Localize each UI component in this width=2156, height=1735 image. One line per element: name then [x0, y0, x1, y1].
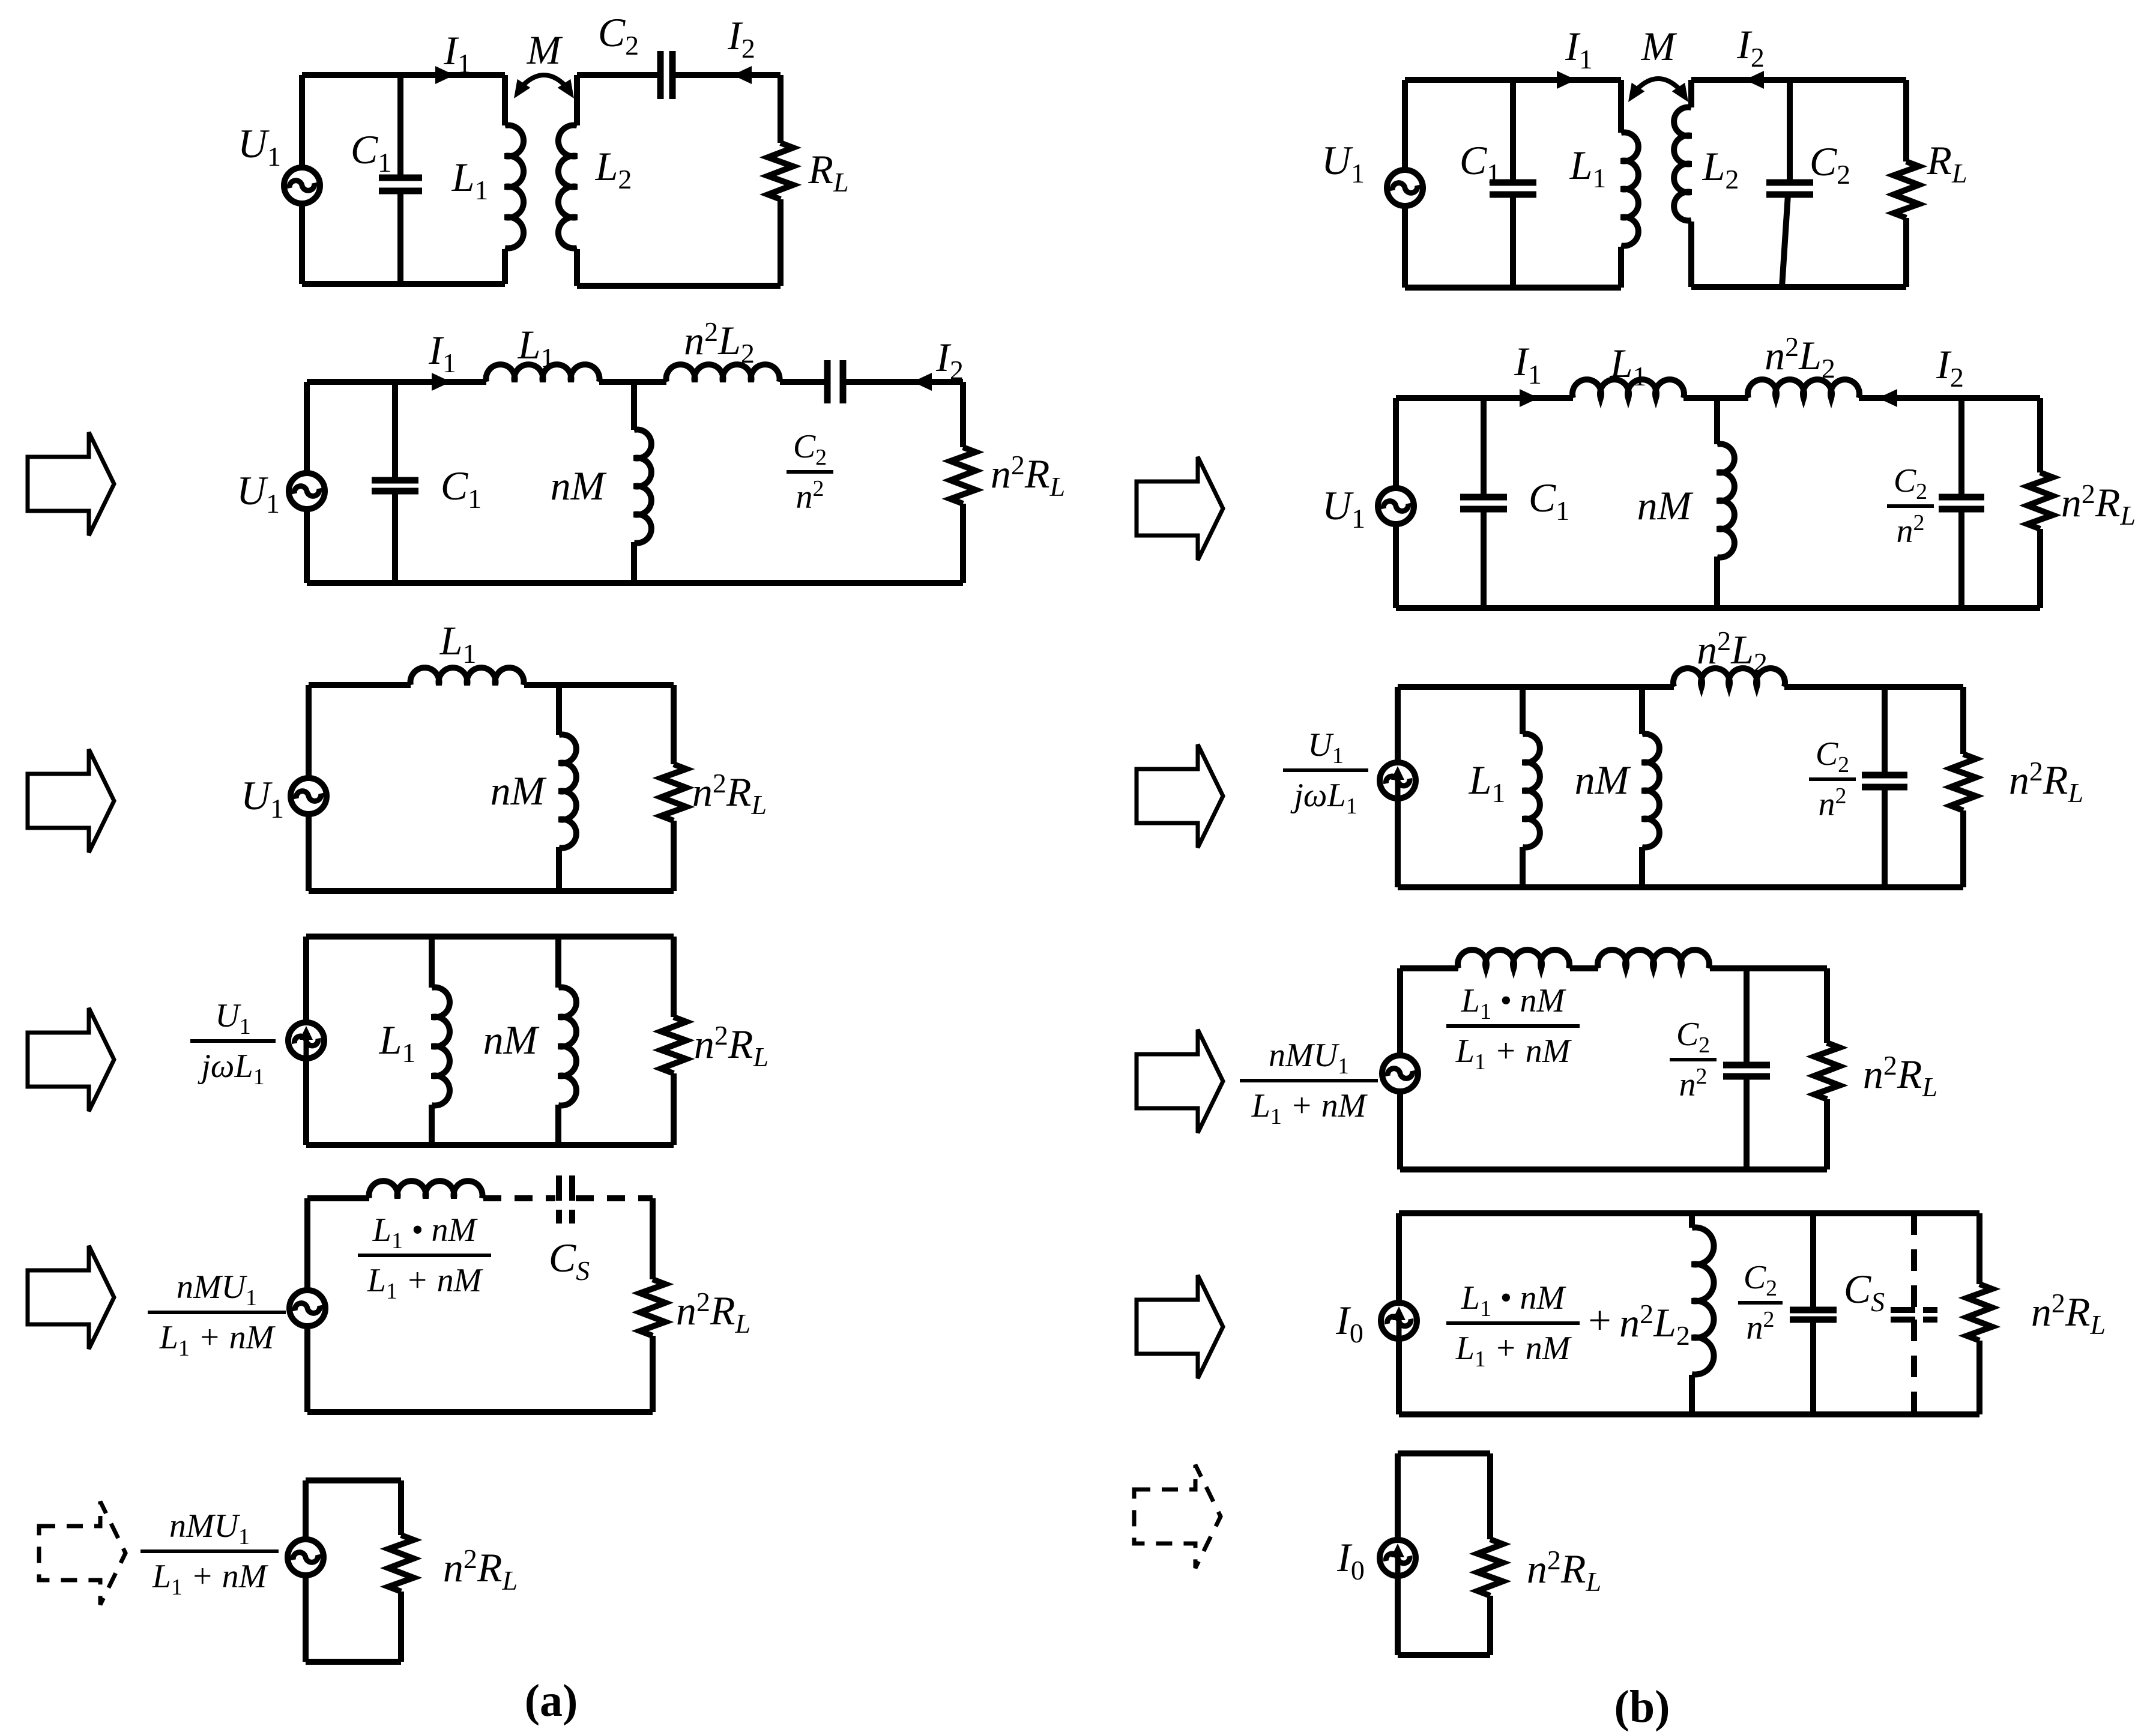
inductor n2L2 coil: [1748, 379, 1859, 398]
mutual inductance M arc: [518, 75, 570, 91]
row6a loop wires: [306, 1477, 401, 1483]
capacitor CS dashed branch: [1911, 1213, 1917, 1310]
capacitor C1 plates: [1490, 180, 1536, 186]
capacitor C1 plates: [1460, 494, 1507, 501]
svg-text:L1 + nM: L1 + nM: [1455, 1033, 1572, 1075]
inductor nM branch: [1639, 687, 1645, 734]
block arrow 1: [28, 432, 114, 536]
inductor coil: [1692, 1228, 1714, 1375]
resistor n2RL: [661, 764, 686, 821]
inductor nM coil: [634, 430, 651, 543]
resistor n2RL: [950, 447, 976, 504]
inductor nM branch: [631, 382, 637, 430]
block arrow 2: [28, 749, 114, 852]
inductor L1 coil: [505, 125, 524, 249]
voltage source: [1382, 1055, 1418, 1091]
svg-text:(a): (a): [525, 1676, 578, 1726]
dashed block arrow b: [1134, 1465, 1221, 1568]
svg-text:M: M: [1641, 23, 1677, 69]
capacitor C1 plates: [372, 477, 418, 484]
row6b loop wires: [1398, 1450, 1490, 1456]
block arrow 1b: [1137, 457, 1223, 560]
current source I0: [1380, 1540, 1416, 1576]
row3b outer wires: [1398, 684, 1674, 690]
voltage source: [289, 1290, 325, 1326]
capacitor C2 branch: [1787, 80, 1793, 183]
resistor RL: [1894, 161, 1919, 218]
row1a left loop wires: [302, 72, 505, 78]
current arrow I2: [732, 66, 752, 84]
svg-text:(b): (b): [1614, 1682, 1670, 1732]
current source I0: [1381, 1303, 1417, 1339]
capacitor C2/n2 branch: [1810, 1213, 1816, 1310]
voltage source U1: [289, 473, 325, 509]
inductor L1 wires: [502, 75, 508, 125]
inductor nM coil: [1642, 734, 1659, 848]
inductor L1 coil: [1523, 734, 1540, 848]
row5b outer wires: [1399, 1210, 1979, 1216]
inductor n2L2 coil: [666, 364, 780, 382]
row2a outer wires: [307, 379, 486, 385]
current source U1/jwL1: [1380, 762, 1416, 798]
current arrow I1: [432, 373, 451, 391]
inductor L1 coil: [1621, 133, 1638, 246]
voltage source U1: [291, 778, 327, 814]
capacitor C1 branch: [1481, 398, 1487, 497]
resistor n2RL: [2028, 472, 2053, 529]
row2b outer wires: [1396, 395, 1573, 401]
row4a outer wires: [306, 934, 674, 940]
svg-text:nMU1: nMU1: [169, 1507, 250, 1549]
capacitor CS plates: [1891, 1307, 1915, 1313]
block arrow 4b: [1137, 1275, 1223, 1378]
row1a right loop wires: [577, 72, 660, 78]
capacitor C2 plates: [1766, 180, 1813, 186]
row1b right loop wires: [1691, 77, 1906, 83]
resistor n2RL: [1814, 1043, 1840, 1099]
inductor n2L2 coil: [1673, 668, 1785, 687]
svg-text:M: M: [527, 27, 563, 73]
capacitor C1 plates: [379, 175, 422, 181]
inductor coil: [369, 1181, 483, 1198]
row5a wires: [307, 1195, 369, 1201]
resistor n2RL: [1478, 1539, 1503, 1596]
voltage source: [288, 1539, 324, 1575]
inductor L2 coil: [1674, 107, 1691, 221]
voltage source U1: [284, 167, 320, 204]
inductor L1 coil: [411, 668, 524, 685]
svg-text:nM: nM: [1575, 757, 1631, 803]
resistor n2RL: [640, 1279, 665, 1336]
current source U1/jwL1: [288, 1022, 324, 1058]
svg-text:L1 + nM: L1 + nM: [159, 1319, 276, 1361]
capacitor C2/n2 branch: [1744, 968, 1750, 1065]
svg-text:L1 + nM: L1 + nM: [1455, 1330, 1572, 1372]
inductor L1 wires: [1618, 80, 1624, 133]
svg-text:nM: nM: [483, 1017, 540, 1063]
svg-text:L1 • nM: L1 • nM: [372, 1211, 479, 1254]
inductor nM coil: [1717, 444, 1735, 558]
current arrow I1: [1557, 71, 1576, 89]
svg-text:L1 + nM: L1 + nM: [152, 1558, 269, 1600]
svg-text:nMU1: nMU1: [1269, 1037, 1349, 1079]
block arrow 3: [28, 1008, 114, 1111]
capacitor C2/n2 series plates: [824, 360, 831, 403]
capacitor C1 branch: [392, 382, 398, 480]
inductor L1 coil: [432, 988, 450, 1106]
current arrow I2: [1878, 389, 1897, 407]
capacitor C2/n2 plates: [1939, 494, 1984, 501]
svg-text:nM: nM: [1637, 483, 1694, 528]
resistor n2RL: [1967, 1284, 1992, 1341]
inductor L1 coil: [1572, 379, 1684, 398]
voltage source U1: [1378, 488, 1414, 524]
mutual inductance M arc: [1632, 79, 1685, 95]
capacitor C2/n2 plates: [1790, 1307, 1837, 1314]
svg-text:+: +: [1586, 1297, 1613, 1343]
resistor n2RL: [1951, 754, 1976, 810]
svg-text:L1 • nM: L1 • nM: [1461, 1279, 1567, 1321]
current arrow I2: [1745, 71, 1764, 89]
inductor L1 branch: [429, 937, 435, 988]
current arrow I1: [435, 66, 454, 84]
capacitor C2/n2 branch: [1882, 687, 1888, 775]
svg-text:nM: nM: [491, 768, 547, 813]
capacitor C2/n2 plates: [1723, 1062, 1770, 1069]
capacitor C2 series plates: [657, 51, 664, 99]
current arrow I1: [1520, 389, 1539, 407]
inductor L1 coil: [486, 364, 600, 382]
capacitor C2/n2 plates: [1862, 772, 1907, 779]
inductor nM branch: [555, 937, 561, 988]
capacitor CS dashed plates: [556, 1175, 562, 1201]
voltage source U1: [1387, 170, 1423, 206]
inductor coil 1: [1458, 950, 1569, 968]
inductor nM branch: [556, 685, 562, 735]
dashed block arrow: [39, 1501, 125, 1605]
svg-text:L1 + nM: L1 + nM: [1251, 1087, 1368, 1129]
row3a outer wires: [309, 682, 411, 688]
row1b left loop wires: [1405, 77, 1621, 83]
inductor L1 branch: [1520, 687, 1526, 734]
resistor RL: [768, 143, 793, 199]
capacitor C2/n2 branch: [1958, 398, 1964, 497]
capacitor C1 branch wire: [397, 75, 403, 178]
inductor nM branch: [1714, 398, 1720, 444]
resistor n2RL: [661, 1017, 686, 1073]
svg-text:L1 + nM: L1 + nM: [367, 1262, 484, 1304]
block arrow 2b: [1137, 744, 1223, 848]
capacitor C1 branch: [1510, 80, 1516, 183]
current arrow I2: [913, 373, 932, 391]
row5a dashed wires: [483, 1195, 555, 1201]
inductor nM coil: [559, 735, 576, 848]
block arrow 4: [28, 1246, 114, 1349]
svg-text:nMU1: nMU1: [177, 1269, 257, 1311]
block arrow 3b: [1137, 1030, 1223, 1133]
inductor coil 2: [1598, 950, 1709, 968]
inductor L2 coil: [558, 125, 577, 249]
inductor nM coil: [558, 988, 576, 1106]
resistor n2RL: [388, 1535, 414, 1592]
inductor coil branch: [1689, 1213, 1695, 1228]
svg-text:L1 • nM: L1 • nM: [1461, 982, 1567, 1024]
svg-text:nM: nM: [551, 463, 607, 508]
row4b outer wires: [1400, 965, 1458, 971]
